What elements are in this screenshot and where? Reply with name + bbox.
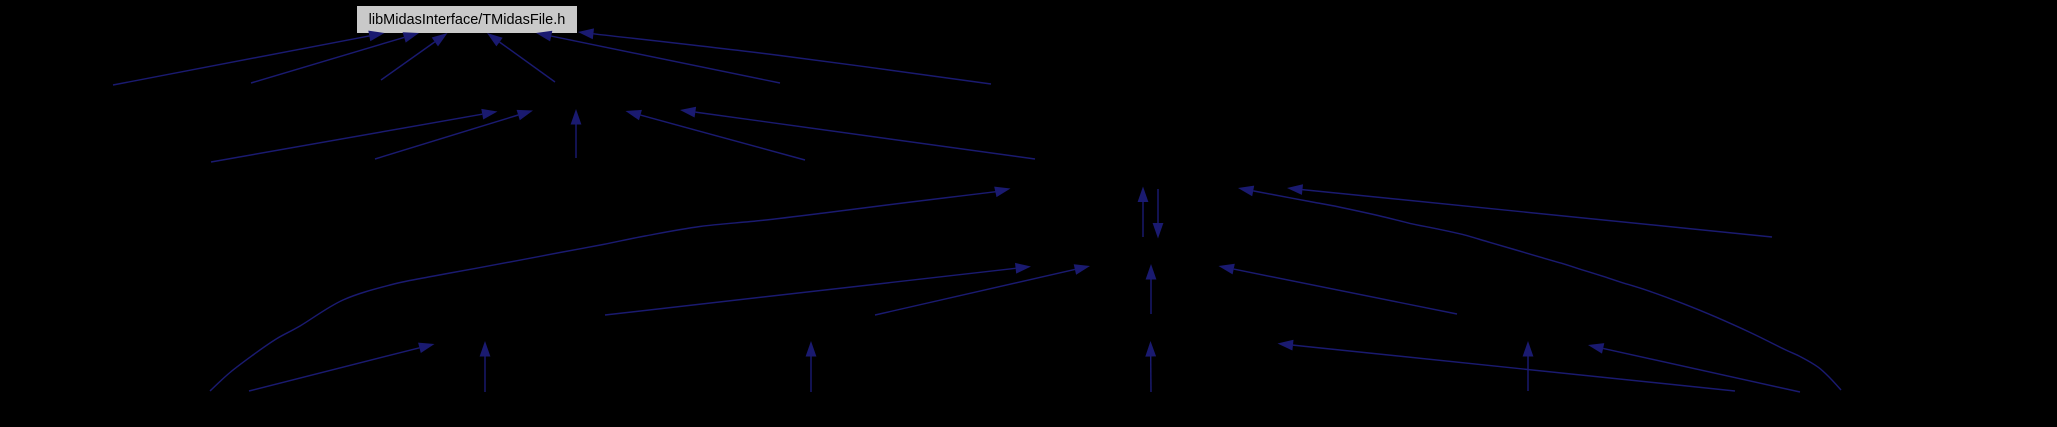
arrow B3 <box>571 109 582 158</box>
arrow E7 <box>1588 343 1800 392</box>
arrow E4 <box>1145 341 1156 392</box>
arrow D5 <box>1146 264 1157 314</box>
arrow E1 <box>249 343 435 391</box>
arrow E3 <box>806 341 817 392</box>
arrow C3 <box>1287 184 1772 237</box>
arrow D2 <box>605 263 1031 315</box>
arrow A5 <box>536 31 780 83</box>
arrow D4 <box>1219 264 1458 314</box>
arrow E2 <box>480 341 491 392</box>
arrow B5 <box>626 110 806 160</box>
arrow C2 <box>1153 189 1164 239</box>
arrow A6 <box>578 28 991 84</box>
arrow C4 <box>1238 186 1841 390</box>
arrow B1 <box>211 109 498 162</box>
arrow A1 <box>113 31 385 85</box>
arrow E5 <box>1523 341 1534 391</box>
arrow D1 <box>210 187 1011 391</box>
arrow D3 <box>875 264 1090 315</box>
svg-text:libMidasInterface/TMidasFile.h: libMidasInterface/TMidasFile.h <box>369 12 566 28</box>
arrow C1 <box>1138 187 1149 238</box>
arrow B4 <box>680 107 1035 159</box>
node libMidasInterface/TMidasFile.h <box>357 6 577 33</box>
arrow E6 <box>1278 340 1736 391</box>
arrow A2 <box>251 32 419 83</box>
arrow A3 <box>381 33 448 80</box>
arrow A4 <box>487 33 555 82</box>
arrow B2 <box>375 110 533 159</box>
